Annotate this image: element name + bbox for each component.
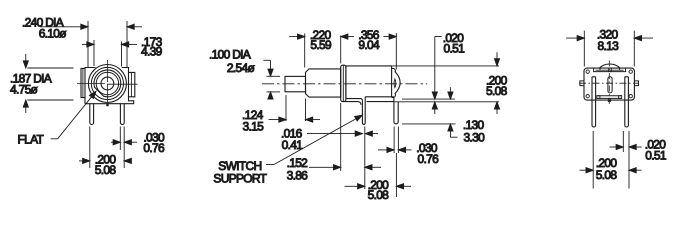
dimension .020 / 0.51 (leg thickness) — [610, 131, 642, 189]
vertical centerline (dashed) — [608, 61, 610, 105]
dimension .200 / 5.08 (pin spacing) — [79, 127, 132, 169]
bottom center tick — [106, 104, 108, 106]
svg-text:3.30: 3.30 — [464, 131, 486, 145]
svg-text:5.08: 5.08 — [95, 163, 117, 177]
svg-text:5.08: 5.08 — [596, 168, 618, 182]
dimension .100 DIA / 2.54 — [263, 60, 280, 99]
svg-text:4.39: 4.39 — [141, 45, 163, 59]
svg-text:5.08: 5.08 — [368, 188, 390, 202]
svg-text:0.76: 0.76 — [418, 152, 440, 166]
bezel inner ring — [91, 67, 123, 99]
bottom line right of tab — [365, 96, 394, 98]
dimension .240 DIA / 6.10 — [40, 21, 142, 67]
left mounting tab — [81, 68, 85, 97]
left ear tab — [580, 81, 584, 86]
bar end box left — [597, 96, 600, 99]
dimension .220 / 5.59 — [289, 33, 354, 67]
dimension .130 / 3.30 (leg length) — [402, 87, 458, 137]
top tray — [594, 68, 626, 72]
clip top hook — [392, 69, 396, 73]
svg-text:8.13: 8.13 — [598, 39, 620, 53]
button inner ring — [96, 72, 118, 94]
dimension .030 / 0.76 (leg width) — [378, 127, 412, 154]
horizontal centerline (dashed) — [262, 83, 427, 85]
right ear tab — [634, 81, 638, 86]
left pin — [90, 104, 94, 125]
corner rivet top-right — [629, 70, 632, 73]
dimension .356 / 9.04 — [341, 33, 397, 70]
dimension .187 DIA / 4.75 — [23, 54, 73, 113]
plunger dome — [599, 64, 620, 68]
clip lens detail — [394, 79, 396, 88]
center stub — [608, 98, 610, 101]
body bottom inner line bending into support tab — [346, 99, 363, 101]
FLAT label and leader — [51, 90, 98, 139]
base line right of tab — [367, 101, 394, 103]
dimension .124 / 3.15 — [269, 95, 321, 122]
horizontal centerline — [77, 83, 138, 86]
svg-text:9.04: 9.04 — [358, 38, 380, 52]
flange ring — [341, 65, 346, 101]
clip bottom hook — [392, 94, 396, 98]
dimension .152 / 3.86 — [309, 103, 381, 189]
bezel outer circle — [88, 65, 126, 103]
dimension .016 / 0.41 — [307, 131, 378, 136]
base outer line with bend — [341, 102, 361, 105]
corner rivet bottom-left — [586, 94, 589, 97]
dimension .030 / 0.76 (pin width) — [111, 127, 137, 169]
svg-text:6.10ø: 6.10ø — [39, 27, 68, 41]
svg-text:3.15: 3.15 — [243, 120, 265, 134]
bar end box right — [619, 96, 622, 99]
svg-text:FLAT: FLAT — [18, 133, 45, 147]
rear terminal leg — [394, 97, 398, 124]
right leg — [625, 77, 629, 127]
plunger cylinder — [285, 76, 306, 91]
dimension .200 / 5.08 (support to leg) — [345, 153, 412, 197]
right pin — [120, 104, 124, 125]
switch body — [346, 66, 392, 99]
svg-text:3.86: 3.86 — [287, 168, 309, 182]
vertical centerline — [106, 60, 108, 104]
button circle with flat — [94, 70, 121, 97]
svg-text:.100 DIA: .100 DIA — [209, 48, 251, 62]
corner rivet top-left — [586, 70, 589, 73]
end view body — [584, 68, 634, 100]
svg-text:5.59: 5.59 — [310, 38, 332, 52]
svg-text:SUPPORT: SUPPORT — [213, 171, 267, 185]
front view body — [85, 68, 134, 104]
svg-text:2.54ø: 2.54ø — [227, 61, 256, 75]
main cylinder with chamfered face — [306, 69, 341, 97]
SWITCH SUPPORT label and leader — [266, 113, 363, 165]
horizontal centerline (dashed) — [579, 82, 639, 84]
rear clip bow spring — [395, 71, 400, 94]
svg-text:5.08: 5.08 — [486, 84, 508, 98]
center hole circle — [101, 77, 114, 90]
dimension .173 / 4.39 — [82, 40, 137, 67]
contact bar — [597, 95, 622, 97]
svg-text:0.51: 0.51 — [444, 41, 466, 55]
dimension .200 / 5.08 (leg spacing) — [580, 131, 642, 189]
dimension .320 / 8.13 — [566, 31, 653, 67]
svg-text:4.75ø: 4.75ø — [10, 82, 39, 96]
right mounting tab — [129, 72, 135, 96]
dimension .200 / 5.08 (body height) — [494, 52, 499, 114]
switch support tab — [362, 97, 365, 125]
svg-text:0.76: 0.76 — [143, 141, 165, 155]
actuator slot — [608, 77, 612, 93]
svg-text:0.51: 0.51 — [645, 149, 667, 163]
left leg — [592, 77, 596, 127]
corner rivet bottom-right — [629, 94, 632, 97]
dimension .020 / 0.51 (base plate) — [392, 37, 499, 115]
